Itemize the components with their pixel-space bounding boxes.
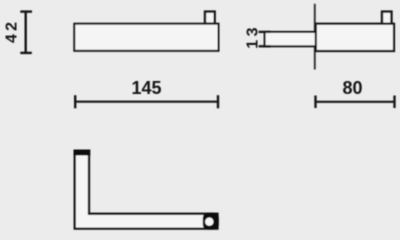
- dimension 80: line: [316, 101, 395, 103]
- svg-text:145: 145: [131, 78, 161, 98]
- dimension 42: line: [25, 12, 27, 53]
- side view: body plate: [316, 24, 394, 51]
- dimension 80: right tick: [393, 96, 395, 109]
- side view: roll-holder rod: [265, 32, 316, 46]
- dimension 80: left tick: [314, 96, 316, 109]
- bottom view: wall plate filled cap: [74, 150, 91, 156]
- dimension 42: bottom tick: [20, 52, 32, 54]
- dimension 145: line: [75, 101, 218, 103]
- front view: mounting tab: [205, 12, 215, 24]
- dimension 42: top tick: [20, 10, 32, 12]
- dimension 145: left tick: [74, 95, 76, 108]
- bottom view: rod end black cap: [203, 213, 219, 230]
- dimension 13: bottom tick: [259, 45, 271, 47]
- bottom view: rod end hole: [205, 218, 213, 226]
- svg-text:80: 80: [342, 78, 362, 98]
- side view: wall line: [314, 4, 316, 70]
- side view: mounting tab: [382, 12, 392, 24]
- svg-text:42: 42: [4, 19, 21, 43]
- dimension 145: right tick: [217, 95, 219, 108]
- bottom view: L-shaped outline: [75, 151, 218, 229]
- front view: bar body: [74, 24, 218, 51]
- svg-text:13: 13: [244, 24, 261, 49]
- dimension 13: top tick: [259, 31, 271, 33]
